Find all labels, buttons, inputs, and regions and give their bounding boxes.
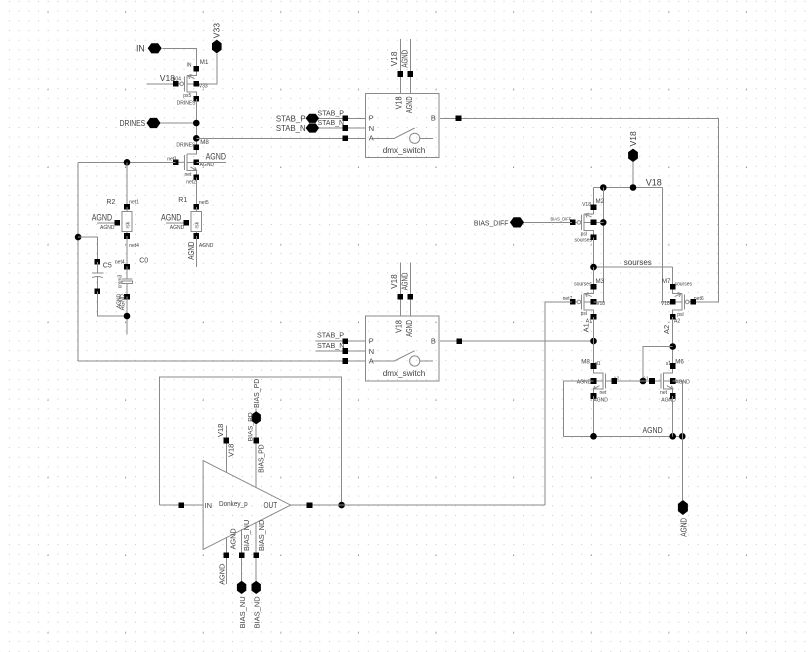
wire rail to M2 drain [593, 188, 595, 208]
wire A1 vertical M3 drain to M8 drain [593, 317, 595, 366]
wire A2 vertical M7 drain to M6 drain [672, 317, 674, 366]
wire M1 source down to M8 drain [195, 99, 197, 148]
wire OUT net [291, 504, 546, 506]
svg-text:net4: net4 [129, 243, 139, 249]
wire M2 source to sourses rail [593, 237, 595, 267]
pin V33 [212, 40, 222, 54]
svg-text:A2: A2 [674, 318, 680, 324]
svg-text:C0: C0 [139, 257, 148, 264]
svg-text:psl: psl [581, 311, 587, 317]
wire R2 bottom to C0 [126, 236, 128, 267]
svg-text:BIAS_DIFF: BIAS_DIFF [474, 219, 509, 228]
net AGND stub above U2 [409, 263, 411, 317]
svg-text:V18: V18 [646, 177, 662, 187]
svg-text:AGND: AGND [199, 243, 214, 249]
svg-text:N: N [369, 347, 374, 356]
dmx_switch U1 box [366, 94, 440, 158]
svg-text:sourses: sourses [574, 237, 592, 243]
wire M3 bulk stub [594, 301, 604, 303]
svg-text:M1: M1 [200, 59, 209, 66]
wire M8 source to rail [593, 396, 595, 436]
svg-text:AGND: AGND [643, 425, 663, 435]
node V18 junctions [600, 184, 607, 191]
pin BIAS_NU [237, 581, 246, 594]
svg-text:AGND: AGND [405, 320, 414, 337]
svg-text:STAB_P: STAB_P [318, 110, 345, 117]
svg-text:net1: net1 [167, 157, 177, 163]
svg-text:rsk: rsk [125, 221, 131, 228]
switch symbol U1 [373, 137, 395, 139]
svg-text:M8: M8 [200, 139, 209, 146]
svg-text:net4: net4 [115, 259, 125, 265]
svg-text:B: B [431, 337, 436, 346]
wire feedback loop [159, 377, 341, 505]
svg-text:AGND: AGND [661, 398, 676, 404]
capacitor C0 [124, 264, 130, 270]
svg-text:net: net [600, 390, 608, 396]
svg-text:IN: IN [136, 44, 145, 54]
svg-text:P: P [369, 337, 374, 346]
net AGND stub on M8 bulk [196, 161, 226, 163]
svg-text:A1: A1 [643, 375, 649, 380]
svg-text:STAB_N: STAB_N [317, 341, 344, 350]
wire U2 B to node A1 [440, 340, 594, 342]
svg-text:BIAS_NU: BIAS_NU [242, 520, 251, 551]
svg-text:net5: net5 [199, 200, 209, 206]
wire IN to M1 drain [162, 48, 196, 69]
transistor M6 (NMOS) [662, 373, 664, 390]
svg-text:AGND: AGND [577, 380, 592, 386]
wire rail to AGND pin [681, 436, 683, 500]
net AGND stub on R2 [97, 222, 117, 224]
node C5 branch junction [75, 234, 82, 241]
svg-text:V33: V33 [199, 83, 208, 89]
svg-text:rsk: rsk [195, 221, 201, 228]
svg-text:BIAS_ND: BIAS_ND [253, 596, 262, 629]
svg-text:OUT: OUT [264, 501, 278, 510]
svg-text:M8: M8 [581, 359, 590, 366]
svg-text:STAB_P: STAB_P [317, 330, 344, 339]
svg-text:M3: M3 [596, 278, 605, 285]
wire M2 bulk stub [594, 221, 604, 223]
wire V18 pin to rail [632, 162, 634, 188]
svg-text:AGND: AGND [100, 225, 115, 231]
svg-text:V18: V18 [216, 424, 225, 437]
node net1/R2 junction [124, 159, 131, 166]
wire OUT up to M3 gate net7 [545, 302, 572, 505]
svg-text:V18: V18 [661, 301, 670, 307]
svg-text:AGND: AGND [92, 213, 112, 223]
net AGND stub below R1 [195, 236, 197, 267]
svg-text:Donkey_p: Donkey_p [219, 499, 248, 508]
wire sourses to M7 [672, 267, 674, 287]
node A junction [193, 135, 200, 142]
net AGND stub op-amp bottom [225, 537, 227, 584]
transistor M2 (PMOS) [583, 214, 585, 231]
wire M8 gate to M6 gate [613, 380, 651, 382]
transistor M8 (NMOS mirrored) [602, 373, 604, 390]
svg-text:N: N [369, 124, 374, 133]
node A2 junction [669, 343, 676, 350]
wire M8 bulk AGND loop and rail [564, 381, 683, 436]
svg-text:R1: R1 [178, 197, 187, 204]
svg-text:AGND: AGND [228, 528, 237, 549]
pin BIAS_DIFF [510, 217, 524, 227]
wire STAB_P to U1 P [319, 117, 366, 119]
wire V18 drop to M7 bulk [662, 188, 672, 303]
transistor M1 (PMOS) [186, 75, 188, 92]
wire BIAS_ND op-amp [255, 522, 257, 581]
pin BIAS_ND [252, 581, 261, 594]
svg-text:IN: IN [205, 501, 213, 510]
svg-text:STAB_N: STAB_N [276, 123, 306, 133]
svg-text:psl: psl [677, 312, 683, 318]
svg-text:AGND: AGND [593, 398, 608, 404]
svg-text:net: net [184, 172, 192, 178]
transistor M7 (PMOS mirrored) [681, 293, 683, 310]
wire sourses to M3 [593, 267, 595, 287]
pin STAB_N [306, 123, 320, 132]
wire V33 to M1 bulk [196, 53, 217, 83]
svg-text:s1: s1 [666, 361, 672, 367]
node gate junction [640, 378, 647, 385]
svg-text:V18: V18 [390, 274, 399, 289]
net STAB_P wire to U2 P [316, 340, 366, 342]
pin BIAS_PD [255, 409, 257, 412]
svg-text:A2: A2 [662, 325, 671, 334]
node M2 bulk junction [600, 219, 607, 226]
svg-text:BIAS_DIFF: BIAS_DIFF [551, 217, 572, 222]
wire M6 source to rail [672, 396, 674, 436]
wire C5 bottom to junction [97, 291, 127, 316]
svg-text:AGND: AGND [400, 272, 409, 290]
wire left vertical net1 down to A wire [77, 162, 79, 361]
svg-text:M2: M2 [596, 198, 605, 205]
svg-text:AGND: AGND [187, 241, 196, 259]
svg-text:AGND: AGND [161, 213, 181, 223]
pin AGND bottom [678, 500, 688, 515]
node AGND rail junctions [590, 433, 597, 440]
svg-text:V18: V18 [227, 444, 236, 457]
pin IN [148, 43, 162, 53]
node OUT feedback junction [338, 502, 345, 509]
svg-text:M6: M6 [675, 359, 684, 366]
svg-text:V18: V18 [628, 131, 638, 146]
node C5/C0 junction [124, 313, 131, 320]
svg-text:net1: net1 [129, 200, 139, 206]
svg-text:BIAS_PD: BIAS_PD [257, 444, 266, 473]
wire DRINES to junction [161, 122, 197, 124]
wire branch to C5 [78, 237, 97, 262]
svg-text:STAB_P: STAB_P [276, 113, 306, 123]
svg-text:AGND: AGND [120, 294, 127, 310]
svg-text:net: net [660, 390, 668, 396]
svg-text:DRINES: DRINES [120, 119, 146, 128]
svg-text:AGND: AGND [206, 152, 226, 162]
svg-text:sourses: sourses [574, 282, 592, 288]
net V18 stub above U2 [399, 263, 401, 317]
wire A2 link to gates [643, 347, 673, 382]
wire to dmx_switch U1 pin A [196, 137, 366, 139]
svg-text:B: B [431, 114, 436, 123]
svg-text:R2: R2 [106, 199, 115, 206]
net STAB_N wire to U2 N [316, 350, 366, 352]
pin V18 [628, 149, 638, 162]
svg-text:M7: M7 [662, 278, 671, 285]
svg-text:sourses: sourses [675, 282, 693, 288]
svg-text:BIAS_ND: BIAS_ND [257, 520, 266, 551]
svg-text:V18: V18 [395, 96, 404, 109]
svg-text:AGND: AGND [400, 50, 409, 68]
wire IN to op-amp [159, 504, 203, 506]
svg-text:AGND: AGND [218, 564, 227, 585]
svg-text:sourses: sourses [624, 257, 652, 267]
wire net1 down to R2 [126, 162, 128, 207]
pin DRINES [147, 118, 161, 128]
wire M8 source to R1 [195, 177, 197, 207]
wire M6 bulk to rail [673, 381, 683, 436]
net AGND stub on R1 [166, 222, 186, 224]
svg-text:dmx_switch: dmx_switch [383, 369, 426, 378]
net V18 gate stub of M1 [147, 83, 175, 85]
svg-text:AGND: AGND [170, 225, 185, 231]
switch symbol U2 [373, 360, 395, 362]
svg-text:ps5: ps5 [183, 93, 191, 99]
dmx_switch U2 box [366, 316, 440, 381]
transistor M3 (PMOS) [583, 293, 585, 310]
node sourses junction [590, 264, 597, 271]
net sourses rail [594, 266, 673, 268]
svg-text:DRINES: DRINES [177, 101, 197, 107]
svg-text:net7: net7 [563, 296, 573, 302]
svg-text:DRINES: DRINES [176, 142, 196, 148]
wire STAB_N to U1 N [319, 127, 366, 129]
svg-text:A1: A1 [582, 323, 591, 332]
svg-text:BIAS_PD: BIAS_PD [247, 412, 254, 441]
net AGND stub above U1 [409, 39, 411, 93]
wire BIAS_PD to op-amp [255, 424, 257, 487]
svg-text:IN: IN [187, 62, 192, 68]
svg-text:C5: C5 [103, 263, 112, 270]
svg-text:net2: net2 [186, 180, 196, 186]
wire U1 B to M7 gate (net6) [440, 118, 718, 302]
svg-text:cmm3: cmm3 [117, 274, 123, 288]
net V18 stub above U1 [399, 39, 401, 93]
svg-text:d1: d1 [595, 361, 601, 367]
wire BIAS_NU op-amp [241, 529, 243, 581]
net AGND stub below C0 [126, 297, 128, 335]
net V18 stub op-amp [225, 426, 227, 472]
wire V18 bulk vertical [602, 188, 604, 303]
svg-text:AGND: AGND [405, 96, 414, 113]
svg-text:AGND: AGND [679, 518, 688, 537]
svg-text:V18: V18 [395, 320, 404, 333]
svg-text:V18: V18 [390, 51, 399, 66]
svg-text:BIAS_NU: BIAS_NU [238, 596, 247, 628]
transistor M8 upper (NMOS) [186, 154, 188, 171]
node DRINES junction [193, 120, 200, 127]
node A1/B junction [590, 338, 597, 345]
pin STAB_P [306, 114, 320, 123]
wire BIAS_DIFF to M2 gate [524, 221, 572, 223]
op-amp U3 Donkey_p triangle [203, 461, 291, 550]
svg-text:P: P [369, 114, 374, 123]
svg-text:BIAS_PD: BIAS_PD [252, 378, 261, 408]
capacitor C5 [95, 259, 101, 265]
svg-text:V18: V18 [582, 202, 591, 208]
svg-text:STAB_N: STAB_N [318, 120, 345, 127]
wire long A net from left to U2 A [78, 360, 366, 362]
svg-text:net6: net6 [694, 296, 704, 302]
svg-text:dmx_switch: dmx_switch [383, 146, 426, 155]
net V18 rail [594, 187, 663, 189]
wire net1 from left to M8 gate [78, 161, 176, 163]
svg-text:V33: V33 [212, 23, 222, 38]
